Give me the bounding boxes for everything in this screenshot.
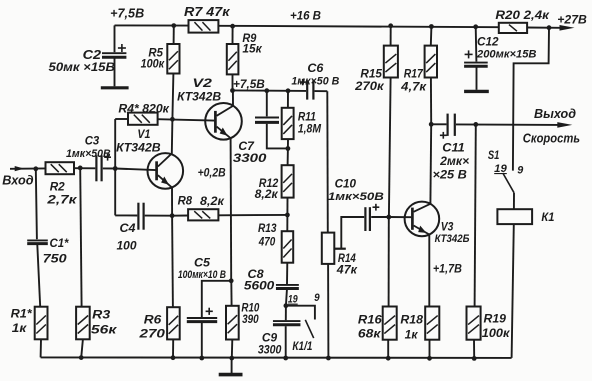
node R11/R12/C7 junction — [286, 146, 291, 151]
node ground rail R18 — [427, 356, 432, 361]
svg-text:Скорость: Скорость — [523, 130, 580, 145]
resistor R9 15k — [227, 44, 239, 74]
wire node R4/R5 to V2 base — [158, 119, 215, 120]
svg-text:C4: C4 — [120, 221, 136, 235]
svg-text:2,7к: 2,7к — [46, 192, 78, 206]
wire V1 collector up — [171, 119, 174, 153]
wire R15 bottom down to V3 base node — [389, 78, 391, 217]
wire V2 emitter down long — [230, 138, 233, 281]
svg-text:R2: R2 — [50, 179, 65, 193]
wire C4 left — [115, 214, 137, 216]
transistor V3 KT342B — [405, 202, 440, 237]
wire V2 collector up to +7.5V node — [232, 90, 234, 106]
wire R11 bottom to node — [287, 139, 289, 148]
svg-text:15к: 15к — [242, 43, 262, 56]
node ground rail R10/ground stub — [229, 356, 234, 361]
wire +7.5V node row — [233, 89, 307, 92]
svg-text:100к: 100к — [482, 326, 511, 340]
node R11 top junction — [286, 88, 291, 93]
svg-text:C12: C12 — [477, 35, 499, 49]
wire R15 from rail — [390, 26, 392, 46]
wire node to V1 base — [115, 169, 155, 171]
wire R6 bottom to ground rail — [172, 339, 174, 357]
svg-text:R20 2,4к: R20 2,4к — [495, 8, 549, 22]
svg-text:R3: R3 — [92, 307, 110, 321]
capacitor C2 50uF electrolytic — [102, 52, 126, 54]
wire C8 bottom to node 19 — [286, 290, 287, 306]
wire V3 base node to base — [389, 216, 411, 218]
chassis terminal of C12 — [464, 90, 489, 93]
wire switch S1 movable arm — [503, 173, 514, 193]
node +27V supply arrow — [560, 25, 575, 31]
wire output node to C11 — [431, 123, 446, 125]
svg-text:470: 470 — [258, 234, 276, 248]
svg-text:19: 19 — [288, 294, 298, 306]
svg-text:C10: C10 — [335, 177, 357, 191]
svg-text:R1*: R1* — [11, 306, 33, 320]
wire V1 emitter down — [171, 188, 173, 216]
wire V3 base node to R16 — [388, 217, 390, 307]
svg-text:R4* 820к: R4* 820к — [118, 101, 169, 115]
wire R8 to node R12/R13 — [218, 214, 287, 216]
node input arrow — [15, 166, 25, 171]
node R4/R5/V1/V2 junction — [170, 117, 175, 122]
svg-text:C1*: C1* — [50, 236, 70, 250]
svg-text:4,7к: 4,7к — [400, 79, 427, 93]
resistor R18 1k — [425, 307, 439, 340]
node +7.5V V2 collector junction — [230, 88, 235, 93]
wire C12 bottom to chassis bar — [476, 68, 478, 90]
wire output line to arrow — [456, 123, 558, 126]
capacitor C3 1uF — [95, 155, 97, 181]
wire node to R8 — [172, 215, 188, 217]
wire relay K1 coil to ground rail — [512, 224, 514, 358]
resistor R1 1k — [35, 307, 48, 340]
svg-text:К1: К1 — [541, 210, 554, 224]
capacitor C12 200uF electrolytic — [464, 62, 488, 64]
capacitor C11 2uF — [447, 114, 449, 136]
capacitor C1 750 — [27, 239, 48, 241]
wire contact K1/1 movable arm — [305, 320, 313, 338]
svg-text:R7 47к: R7 47к — [184, 5, 230, 19]
wire top supply rail middle (+16V section) — [218, 26, 498, 27]
svg-text:C5: C5 — [194, 255, 210, 269]
wire left vertical bus x=115 — [114, 119, 116, 215]
resistor R7 47k (series in rail) — [189, 20, 219, 32]
capacitor C6 1uF — [306, 80, 308, 99]
wire R17 from rail — [430, 27, 433, 46]
transistor V1 KT342V — [148, 153, 184, 189]
node ground rail R3 — [79, 355, 84, 360]
svg-text:+16 В: +16 В — [290, 8, 321, 22]
trimmer R14 wiper bar — [334, 248, 346, 250]
node ground rail R6 — [171, 355, 176, 360]
wire C3 to node — [103, 167, 115, 169]
svg-text:C11: C11 — [442, 140, 465, 154]
svg-text:+27В: +27В — [557, 13, 587, 27]
wire R13 bottom to C8 — [286, 263, 288, 284]
wire top supply rail left (+7.5V section) — [115, 24, 189, 26]
node V2 emitter/C5/R10 junction — [229, 278, 234, 283]
svg-text:+1,7В: +1,7В — [433, 261, 462, 275]
capacitor C7 3300 — [255, 117, 279, 119]
node rail junction R17 — [429, 24, 434, 29]
node V3 base/R15/R16/C10 junction — [386, 215, 391, 220]
wire R2 to C3 — [74, 167, 95, 169]
wire bottom ground rail — [41, 356, 512, 359]
resistor R4 820k — [128, 113, 158, 125]
wire R17 bottom to output node — [430, 78, 432, 125]
svg-text:C3: C3 — [85, 133, 100, 147]
svg-text:3300: 3300 — [258, 344, 282, 357]
wire +27V feed to relay, elbow — [513, 28, 549, 171]
resistor R16 68k — [383, 307, 397, 340]
svg-text:+0,2В: +0,2В — [198, 165, 226, 179]
wire R16 bottom to ground rail — [387, 340, 389, 358]
wire R5 bottom to node — [172, 74, 173, 120]
svg-text:R16: R16 — [358, 313, 382, 327]
capacitor C8 5600 — [276, 284, 299, 286]
svg-text:750: 750 — [43, 251, 67, 265]
svg-text:R13: R13 — [258, 221, 277, 235]
wire R3 top from input node — [80, 168, 81, 307]
svg-text:8,2к: 8,2к — [255, 187, 279, 201]
resistor R17 4.7k — [425, 46, 437, 78]
node ground rail R19 — [472, 356, 477, 361]
wire R1 bottom to ground rail — [40, 339, 42, 357]
node rail junction relay feed — [547, 25, 552, 30]
node V1 emitter/C4/R8/R6 junction — [170, 213, 175, 218]
svg-text:R8: R8 — [178, 194, 193, 208]
wire R12 from node — [287, 149, 289, 166]
node rail junction R15 — [388, 23, 393, 28]
svg-text:1мк×50В: 1мк×50В — [66, 148, 111, 160]
svg-text:R18: R18 — [400, 313, 423, 327]
svg-text:КТ342В: КТ342В — [116, 141, 161, 154]
wire V1 emitter node down to R6 — [171, 216, 174, 308]
relay coil K1 — [497, 209, 532, 224]
wire top supply rail right (+27V section) — [527, 27, 559, 29]
svg-text:2мк×: 2мк× — [439, 155, 469, 168]
svg-text:270к: 270к — [354, 79, 385, 93]
wire R9 bottom to +7.5V node — [232, 74, 234, 90]
svg-text:3300: 3300 — [233, 151, 267, 165]
ground symbol — [219, 373, 243, 377]
svg-text:R19: R19 — [484, 312, 507, 326]
node rail junction R5 — [171, 23, 176, 28]
svg-text:V2: V2 — [192, 76, 212, 90]
svg-text:Выход: Выход — [534, 106, 576, 121]
svg-text:270: 270 — [138, 326, 165, 340]
wire C7 top — [266, 91, 268, 117]
svg-text:R6: R6 — [144, 313, 162, 327]
node rail junction R9 — [230, 24, 235, 29]
node C3/R4/C4 junction — [113, 166, 118, 171]
wire contact K1/1 fixed lead to pin 9 — [286, 306, 315, 320]
resistor R10 390 — [226, 306, 239, 340]
wire C9 bottom to ground rail — [285, 326, 287, 358]
resistor R20 2.4k (series in rail) — [499, 23, 527, 33]
resistor R19 100k — [467, 307, 481, 340]
capacitor C4 100 — [137, 203, 139, 230]
svg-text:V1: V1 — [137, 127, 150, 141]
svg-text:19: 19 — [494, 163, 507, 175]
wire R13 from node — [286, 215, 288, 231]
svg-text:9: 9 — [517, 164, 524, 176]
resistor R6 270 — [167, 307, 180, 339]
node rail junction C12 — [473, 24, 478, 29]
wire V2 emitter node to R10 — [230, 281, 232, 306]
svg-text:100к: 100к — [141, 58, 166, 71]
wire R5 from rail — [173, 26, 175, 44]
wire C12 from rail — [475, 27, 478, 62]
resistor R11 1.8M — [282, 108, 294, 139]
wire C7 bottom elbow to R11/R12 node — [267, 124, 288, 149]
wire V3 collector up to output node — [429, 124, 432, 204]
capacitor C5 100uF electrolytic — [187, 317, 217, 319]
svg-text:56к: 56к — [91, 322, 118, 336]
node ground rail C9 — [283, 356, 288, 361]
wire C5 bottom to ground rail — [201, 323, 203, 358]
wire R19 top from output node — [475, 124, 476, 306]
capacitor C9 3300 — [273, 320, 301, 322]
svg-text:КТ342Б: КТ342Б — [435, 233, 470, 245]
wire input line — [10, 167, 46, 169]
resistor R13 470 — [282, 231, 294, 263]
svg-text:+7,5В: +7,5В — [233, 77, 265, 91]
svg-text:КТ342В: КТ342В — [177, 90, 221, 103]
wire C4 right to node — [145, 215, 172, 217]
wire R18 bottom to ground rail — [429, 340, 431, 358]
svg-text:1мк×50 В: 1мк×50 В — [291, 76, 339, 88]
svg-text:C9: C9 — [262, 331, 278, 345]
wire C6 right to corner — [315, 90, 328, 92]
wire S1 to relay K1 coil — [513, 193, 515, 210]
svg-text:V3: V3 — [441, 220, 454, 234]
transistor V2 KT342V — [205, 103, 242, 140]
svg-text:5600: 5600 — [244, 280, 275, 293]
node V3 collector/R17/C11 junction — [429, 122, 434, 127]
wire R4 left to vertical bus — [115, 118, 128, 120]
svg-text:Вход: Вход — [2, 172, 33, 187]
wire R11 top — [287, 91, 289, 108]
wire R12 bottom to node — [286, 198, 288, 215]
node ground rail C5 — [199, 356, 204, 361]
resistor R5 100k — [167, 44, 179, 74]
node C11/R19 output junction — [473, 122, 478, 127]
svg-text:68к: 68к — [358, 327, 382, 341]
resistor R3 56k — [76, 307, 90, 340]
capacitor C10 1uF — [364, 207, 366, 231]
svg-text:50мк ×15В: 50мк ×15В — [49, 60, 116, 74]
svg-text:1мк×50В: 1мк×50В — [328, 191, 384, 203]
resistor R12 8.2k — [282, 165, 294, 197]
svg-text:100мк×10 В: 100мк×10 В — [178, 269, 226, 281]
chassis terminal of C2 — [101, 86, 129, 89]
wire C5 top tap elbow — [202, 281, 231, 317]
node ground rail R16 — [386, 356, 391, 361]
svg-text:S1: S1 — [488, 148, 500, 162]
wire R3 bottom to ground rail — [81, 339, 83, 357]
wire ground stub — [231, 358, 233, 373]
wire C2 branch from rail — [114, 25, 116, 52]
node input/C1 junction — [33, 166, 38, 171]
svg-text:C6: C6 — [307, 61, 323, 75]
wire R14 top feed from C6 corner — [326, 91, 329, 232]
node R8/R12/R13 junction — [285, 213, 290, 218]
wire C9 top from node 19 — [285, 306, 287, 321]
wire V3 emitter down to R18 — [428, 235, 430, 307]
svg-text:+7,5В: +7,5В — [110, 7, 144, 21]
wire C1 to R1 — [37, 245, 40, 307]
trimmer R14 47k — [322, 233, 335, 264]
node output arrow — [557, 122, 572, 128]
node C7 top junction — [264, 88, 269, 93]
wire R9 from rail — [232, 26, 234, 44]
svg-text:1к: 1к — [405, 328, 419, 342]
resistor R15 270k — [384, 46, 398, 78]
svg-text:100: 100 — [117, 238, 137, 252]
wire R10 bottom to ground rail — [231, 340, 234, 359]
svg-text:8,2к: 8,2к — [200, 194, 225, 208]
node C8/C9/K1-1 junction pin 19 — [284, 303, 289, 308]
svg-text:390: 390 — [242, 312, 259, 326]
svg-text:×25 В: ×25 В — [433, 169, 467, 182]
wire R14 bottom to ground rail — [327, 264, 329, 358]
svg-text:R17: R17 — [404, 66, 424, 80]
wire C1 top from input node — [36, 169, 37, 239]
node R2/R3 junction — [78, 166, 83, 171]
svg-text:9: 9 — [314, 292, 320, 304]
node ground rail R14 — [326, 356, 331, 361]
svg-text:47к: 47к — [336, 262, 358, 276]
svg-text:1,8М: 1,8М — [298, 122, 322, 136]
svg-text:К1/1: К1/1 — [292, 340, 312, 353]
resistor R8 8.2k — [188, 209, 218, 220]
svg-text:1к: 1к — [12, 321, 28, 335]
wire R14 wiper to C10 — [341, 217, 364, 249]
wire C10 right to V3 base node — [371, 216, 389, 218]
svg-text:200мк×15В: 200мк×15В — [476, 48, 537, 60]
wire R19 bottom to ground rail — [473, 340, 475, 358]
resistor R2 2.7k — [46, 162, 75, 174]
